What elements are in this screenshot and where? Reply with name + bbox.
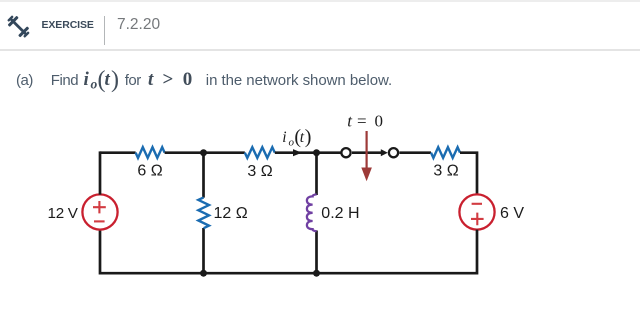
svg-text:io(t): io(t) (282, 126, 311, 148)
switch contact circle right (389, 148, 398, 157)
wire: 3ohm to node B (275, 151, 341, 154)
resistor R 12 ohm (vertical) (198, 197, 209, 228)
wire: branch node B down (315, 153, 318, 274)
wire: bottom-left corner up to 12V source (99, 230, 102, 275)
wire: 6V source to bottom-right corner (100, 230, 477, 275)
svg-text:(a): (a) (16, 72, 33, 89)
voltage source V1 12V (82, 194, 117, 229)
svg-text:0.2 H: 0.2 H (321, 205, 359, 222)
svg-text:6 V: 6 V (500, 205, 524, 222)
wire: 6ohm to node A and to 3ohm (165, 151, 245, 154)
exercise dumbbell icon (6, 14, 31, 39)
wire: switch to right 3ohm (399, 151, 431, 154)
header bar (0, 0, 640, 51)
node A (bottom) junction dot (200, 270, 207, 277)
node B (bottom) junction dot (313, 270, 320, 277)
wire: 3ohm right to top-right corner (460, 151, 477, 194)
svg-text:12 V: 12 V (48, 205, 79, 222)
svg-text:3 Ω: 3 Ω (433, 162, 458, 179)
wire: 12V source up to top-left corner (99, 151, 102, 194)
switch actuation arrow t=0 (361, 131, 372, 181)
switch contact circle left (341, 148, 350, 157)
resistor R 6 ohm (136, 147, 165, 158)
switch blade wire with arrowhead (352, 151, 382, 154)
svg-text:t>0: t>0 (148, 69, 192, 90)
svg-text:Find: Find (51, 72, 78, 89)
wire: top left segment (100, 151, 136, 154)
svg-text:12 Ω: 12 Ω (214, 205, 248, 222)
svg-text:in the network shown below.: in the network shown below. (206, 72, 392, 89)
resistor R 3 ohm (right) (431, 147, 460, 158)
svg-text:3 Ω: 3 Ω (247, 163, 272, 180)
node A (top) junction dot (200, 149, 207, 156)
wire: branch node A down (202, 153, 205, 274)
svg-text:t=0: t=0 (347, 112, 383, 131)
resistor R 3 ohm (middle) (245, 147, 275, 158)
voltage source V2 6V (459, 194, 494, 229)
svg-text:6 Ω: 6 Ω (137, 163, 162, 180)
node B (top) junction dot (313, 149, 320, 156)
svg-text:for: for (125, 72, 142, 89)
question text line (16, 72, 392, 89)
inductor L 0.2H (307, 194, 317, 231)
current arrow i_o(t) (293, 149, 302, 156)
svg-text:io(t): io(t) (84, 67, 120, 93)
